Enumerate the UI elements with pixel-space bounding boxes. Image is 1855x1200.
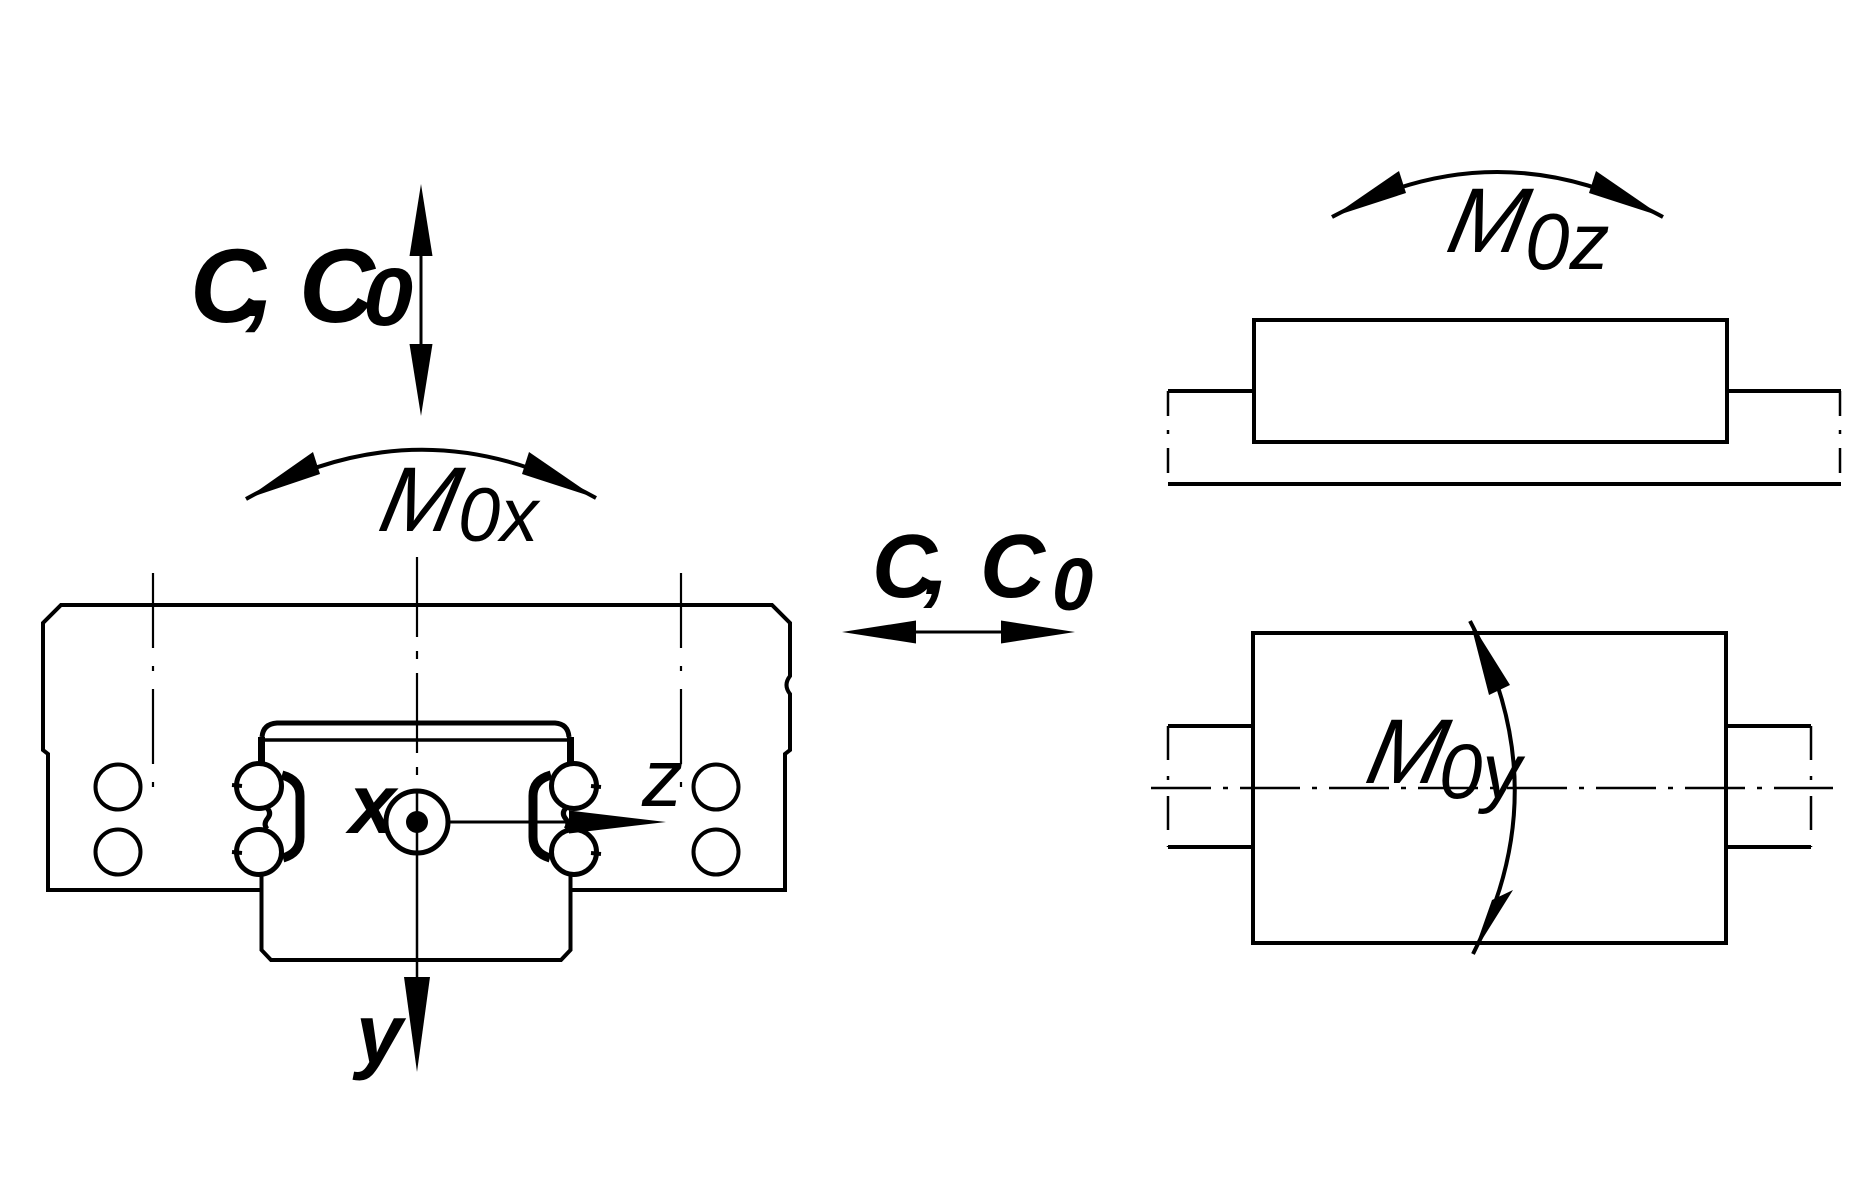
svg-text:0x: 0x — [458, 473, 541, 558]
svg-text:M: M — [1440, 169, 1539, 272]
svg-text:,: , — [244, 222, 275, 339]
svg-text:C: C — [980, 517, 1047, 617]
svg-text:0: 0 — [363, 252, 413, 343]
svg-text:0y: 0y — [1439, 727, 1525, 815]
svg-text:M: M — [372, 448, 471, 551]
svg-text:0z: 0z — [1525, 197, 1610, 286]
svg-text:x: x — [345, 757, 399, 851]
svg-text:y: y — [352, 987, 407, 1081]
svg-text:,: , — [923, 514, 949, 614]
svg-text:0: 0 — [1052, 543, 1093, 626]
svg-text:z: z — [641, 733, 683, 824]
